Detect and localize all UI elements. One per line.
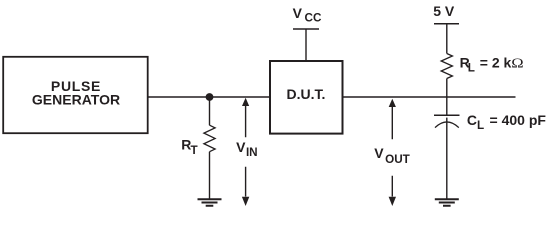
svg-text:GENERATOR: GENERATOR [32,92,120,108]
svg-text:RL = 2 kΩ: RL = 2 kΩ [460,55,524,75]
svg-text:RT: RT [181,137,198,157]
svg-text:5 V: 5 V [433,3,455,19]
svg-text:D.U.T.: D.U.T. [287,86,326,102]
svg-text:VOUT: VOUT [374,145,410,166]
svg-text:CL = 400 pF: CL = 400 pF [467,112,547,132]
svg-text:VIN: VIN [236,139,258,159]
svg-text:VCC: VCC [293,5,322,25]
